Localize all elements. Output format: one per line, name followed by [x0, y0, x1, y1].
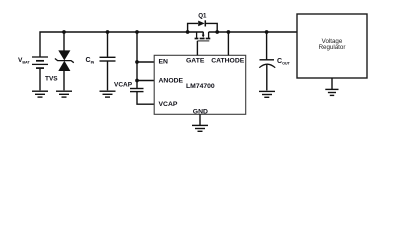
ground (COUT)	[259, 91, 275, 97]
ground (IC GND)	[192, 125, 208, 131]
node EN junction	[135, 60, 139, 64]
svg-text:CIN: CIN	[86, 57, 95, 65]
wire main top rail left segment	[40, 32, 203, 57]
node EN/ANODE branch junction	[135, 30, 139, 34]
svg-text:VCAP: VCAP	[159, 101, 178, 108]
node ANODE junction	[135, 79, 139, 83]
capacitor COUT (polarized)	[266, 32, 268, 59]
svg-text:VBAT: VBAT	[18, 57, 30, 65]
svg-text:COUT: COUT	[277, 58, 291, 66]
wire GND pin	[199, 114, 201, 125]
svg-text:TVS: TVS	[45, 76, 58, 83]
svg-text:ANODE: ANODE	[159, 77, 184, 84]
TVS diode D1 (bidirectional)	[58, 50, 70, 71]
wire CATHODE pin	[227, 32, 229, 55]
svg-text:GATE: GATE	[186, 57, 205, 64]
svg-text:EN: EN	[159, 59, 169, 66]
capacitor CIN	[107, 32, 109, 57]
diode Q1 body diode	[188, 23, 198, 32]
wire TVS top lead	[63, 32, 65, 51]
node COUT junction	[265, 30, 269, 34]
capacitor VCAP	[130, 89, 144, 92]
svg-text:VCAP: VCAP	[114, 82, 133, 89]
svg-text:Regulator: Regulator	[319, 44, 346, 51]
node CIN top junction	[106, 30, 110, 34]
node TVS top junction	[62, 30, 66, 34]
wire regulator ground lead	[331, 78, 333, 89]
wire TVS bottom lead	[63, 71, 65, 91]
wire battery bottom lead	[39, 69, 41, 90]
node diode-loop right junction	[215, 30, 219, 34]
ground (battery)	[32, 91, 48, 97]
svg-text:Q1: Q1	[198, 13, 207, 20]
ground (TVS)	[56, 91, 72, 97]
node CATHODE junction	[227, 30, 231, 34]
op-amp U1 LM74700 controller box	[154, 55, 246, 114]
wire branch vertical to EN/ANODE/CVCAP	[136, 32, 138, 88]
svg-text:LM74700: LM74700	[186, 83, 215, 90]
battery VBAT	[32, 57, 48, 68]
wire gate to GATE pin	[196, 41, 198, 55]
node diode-loop left junction	[186, 30, 190, 34]
wire VCAP pin	[137, 92, 155, 105]
wire ANODE pin	[137, 80, 155, 82]
svg-text:CATHODE: CATHODE	[211, 57, 245, 64]
ground (regulator)	[325, 89, 338, 95]
wire EN pin	[137, 61, 155, 63]
transistor Q1 (NMOS)	[195, 32, 211, 41]
wire main top rail right segment	[209, 31, 297, 33]
ground (CIN)	[100, 91, 116, 97]
Voltage Regulator block	[297, 14, 367, 78]
